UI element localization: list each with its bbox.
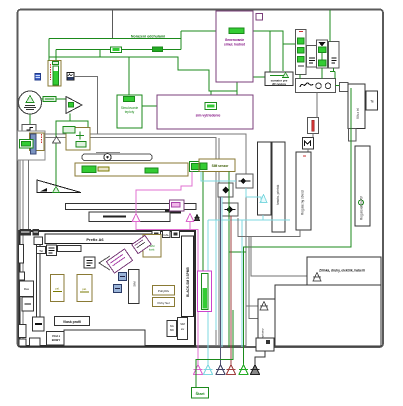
junction triangle small <box>53 137 61 144</box>
svg-text:Generovanie: Generovanie <box>225 38 245 42</box>
magenta slider panel <box>198 271 212 312</box>
svg-text:NG: NG <box>170 324 174 328</box>
diagram outer frame <box>18 10 384 348</box>
box B2 <box>275 285 381 346</box>
svg-text:pal.: pal. <box>55 287 60 291</box>
wire circle to stairs box <box>29 114 31 125</box>
lift rails <box>37 245 41 318</box>
green wire branch y252 <box>229 251 246 253</box>
svg-text:Tst: Tst <box>39 249 43 253</box>
pink tunnel triangle Tp2 <box>186 214 194 222</box>
loop frame G2 <box>23 138 216 346</box>
generator purple box <box>216 11 253 82</box>
MAIN_FRAMES <box>18 10 384 348</box>
green wire senzor drop x229 <box>228 172 230 348</box>
black terminal <box>251 351 266 375</box>
wire KATKA block riser <box>210 91 212 103</box>
selector V3 <box>317 40 328 68</box>
small purple square <box>256 14 263 21</box>
small left box <box>19 272 25 280</box>
green terminal <box>239 365 248 375</box>
TOP_GREEN_NETWORK <box>49 31 296 103</box>
left narrow box <box>19 245 24 264</box>
tilted box TB1 <box>132 235 151 253</box>
pink tunnel triangle Tp1 <box>132 214 140 222</box>
wire tank drops <box>49 39 56 61</box>
vertical SIM box <box>129 270 140 304</box>
svg-text:BLACK-SM 3 SPMB: BLACK-SM 3 SPMB <box>186 267 190 297</box>
wire frame top to V5 <box>329 10 331 42</box>
tilted box TB2 <box>106 249 132 273</box>
conveyor box P2 <box>170 200 185 211</box>
gray wire WB to thermo to mean to V9 <box>308 93 317 153</box>
wide shelf bar <box>58 246 82 252</box>
header bar Prefix <box>45 234 160 244</box>
dark blue terminal <box>216 365 225 375</box>
bottom small box 1 <box>19 325 27 338</box>
long bar L2 <box>89 212 170 222</box>
wall label box dark 2 <box>33 229 40 236</box>
tall indicator TBa <box>258 142 272 215</box>
bottom platform <box>64 330 145 346</box>
svg-text:teploty: teploty <box>125 110 135 114</box>
SIM senzor box <box>199 159 235 172</box>
chevron arrow <box>99 256 110 270</box>
lift bottom box <box>33 317 45 331</box>
stairs icon box <box>22 125 36 136</box>
control panel frame <box>18 131 46 160</box>
green terminal G3 <box>190 162 204 172</box>
start button box <box>192 388 209 399</box>
svg-text:SW: SW <box>170 328 175 332</box>
gray wire nest to B3 <box>249 237 258 319</box>
dark red wire <box>230 216 232 365</box>
svg-text:JR zvukov: JR zvukov <box>272 82 287 86</box>
pink terminal <box>194 365 203 375</box>
TOP_LEFT_CLUSTER <box>18 61 236 232</box>
box B3 <box>258 299 275 343</box>
indicator TE <box>366 91 378 110</box>
PID green box <box>117 95 142 128</box>
svg-text:pal.: pal. <box>82 287 87 291</box>
loop frame G1 <box>20 134 246 346</box>
box BL <box>47 245 57 256</box>
svg-text:Zilinka, druhy, elektrik, habe: Zilinka, druhy, elektrik, haberli <box>319 269 365 273</box>
BOTTOM_TERMINALS <box>192 310 266 398</box>
math function box <box>63 127 90 151</box>
green wire senzor to slider <box>202 172 204 272</box>
svg-text:Regulovateln RV: Regulovateln RV <box>360 195 364 220</box>
gray wire V9 to bundle <box>238 218 300 237</box>
cyan terminal <box>204 365 213 375</box>
regulator RB <box>355 146 370 226</box>
svg-text:Vlask profil: Vlask profil <box>63 320 81 324</box>
simulation-time circle node <box>19 91 42 114</box>
ramp triangle <box>37 180 81 193</box>
waveform chart icon <box>67 73 74 81</box>
svg-text:Štart: Štart <box>195 391 205 396</box>
Vlask profil label box <box>55 317 90 326</box>
bar L2 label smudge <box>103 216 126 218</box>
dark red terminal <box>227 365 236 375</box>
wires V cluster to WB <box>300 53 335 79</box>
wire panel to floor plan <box>28 160 30 231</box>
svg-text:Pohy Sel: Pohy Sel <box>157 301 169 305</box>
box Tost <box>37 247 46 254</box>
tall BLACK-SM box <box>182 236 194 317</box>
svg-text:sim vytriedenie: sim vytriedenie <box>196 114 221 118</box>
stub box <box>349 129 357 142</box>
box B1 <box>307 257 381 285</box>
MIDDLE_SECTION <box>66 142 314 365</box>
long bar L1 <box>66 204 197 210</box>
start wire <box>196 310 233 388</box>
wire PID drop <box>128 57 130 95</box>
top wall boxes right 2 <box>163 231 171 238</box>
terminal H2 <box>340 83 349 92</box>
bottom small box 2 <box>19 339 26 346</box>
pallet tan B <box>77 275 92 302</box>
blue box 1 <box>119 273 127 281</box>
wall label box dark 1 <box>20 229 32 236</box>
svg-text:Te: Te <box>370 100 374 104</box>
wire WB to H2 to VT <box>336 85 349 87</box>
BOTTOM_RIGHT_BOXES <box>256 257 381 351</box>
svg-text:karb.: karb. <box>149 248 155 252</box>
wire PID to KATKA block <box>142 105 205 107</box>
glyph node box BB1 <box>236 174 253 188</box>
indicator V9 <box>296 152 311 230</box>
svg-text:CAL: CAL <box>163 233 169 237</box>
top wall boxes right 1 <box>152 231 161 238</box>
Pohybliv label box <box>153 286 175 296</box>
box Rax <box>20 281 34 297</box>
KATKA purple box <box>157 95 253 129</box>
svg-text:Pohybliv: Pohybliv <box>158 289 170 293</box>
Vlrd label box <box>47 332 66 346</box>
wire sumator to KATKA <box>236 91 238 95</box>
mean box <box>303 138 314 150</box>
cyan wire network <box>201 172 290 365</box>
wire bus B <box>56 49 181 51</box>
wire comparator to math box <box>70 114 88 128</box>
wire generator to S2 and V1 <box>244 31 296 72</box>
box below Rax <box>22 297 34 311</box>
blue box 2 <box>114 285 122 293</box>
svg-text:SIM: SIM <box>133 281 137 287</box>
dark glyph beside Tp2 <box>195 215 200 221</box>
BBF dark box <box>84 257 95 268</box>
gray wire from waveform chart <box>74 77 98 135</box>
svg-text:hmotn. prietok: hmotn. prietok <box>276 184 280 205</box>
svg-text:Rax: Rax <box>24 287 30 291</box>
top wall boxes right 3 <box>172 231 180 238</box>
lift top box <box>34 237 43 245</box>
wire riser x181 <box>180 31 182 50</box>
wire bus D to generator <box>181 30 229 32</box>
FLOOR_PLAN <box>19 229 194 346</box>
indicator VT <box>348 84 365 129</box>
tank constant block <box>48 61 61 87</box>
svg-text:Regulacny obvod: Regulacny obvod <box>301 190 305 215</box>
top divider wire <box>112 10 114 39</box>
svg-text:simul. hodnot: simul. hodnot <box>224 43 246 47</box>
svg-text:Prefix A6: Prefix A6 <box>86 237 104 242</box>
TOP_RIGHT_CLUSTER <box>244 10 378 365</box>
constant array V1 <box>296 30 307 75</box>
bottom small box 3 <box>30 338 41 346</box>
blue array icon <box>35 74 41 81</box>
glyph node box BB3 <box>222 203 238 216</box>
thermometer box <box>308 118 319 134</box>
Pohy Sel label box <box>153 298 175 307</box>
wide tank indicator W1 <box>75 163 188 176</box>
constant box V2 <box>307 46 318 68</box>
bar L1 dark notch <box>165 210 181 214</box>
bottom right box SIM2 <box>178 318 188 340</box>
svg-text:SIM senzor: SIM senzor <box>212 164 230 168</box>
signature box WB <box>296 79 336 93</box>
bottom right box NG <box>167 321 177 337</box>
svg-text:Vlh z trl: Vlh z trl <box>356 108 360 119</box>
green wire VT down to bus 247 <box>244 88 352 365</box>
green block chain beside circle <box>42 97 67 102</box>
pallet tan A <box>51 275 65 302</box>
gain block on bus B <box>111 47 122 53</box>
comparator triangle <box>66 97 82 114</box>
SIM karbanka tan box <box>143 235 161 258</box>
svg-text:Norazeni odchulami: Norazeni odchulami <box>131 35 165 39</box>
gray wire into B3 triangle <box>246 305 260 307</box>
dark blue wire <box>220 197 222 365</box>
pink wire network <box>136 172 198 365</box>
floor plan outer wall <box>20 231 196 346</box>
wire bus C <box>49 57 237 91</box>
glyph node box BB2 <box>218 183 233 197</box>
tall indicator TBb <box>272 142 285 232</box>
box BX below frame <box>256 338 274 351</box>
solid green block on bus B <box>153 47 163 52</box>
constant box V5 <box>329 42 340 69</box>
svg-text:BUBY: BUBY <box>52 338 61 342</box>
horizontal slider control <box>82 153 152 161</box>
pink terminal wire <box>197 347 199 365</box>
loop frame G2 inner edge <box>218 138 220 345</box>
wire bus A <box>49 38 181 40</box>
gray wire B1 stem <box>251 237 313 277</box>
svg-text:SIM: SIM <box>180 322 185 326</box>
sumator box S1 <box>265 72 293 86</box>
wire comparator branch to ramp <box>56 121 70 186</box>
